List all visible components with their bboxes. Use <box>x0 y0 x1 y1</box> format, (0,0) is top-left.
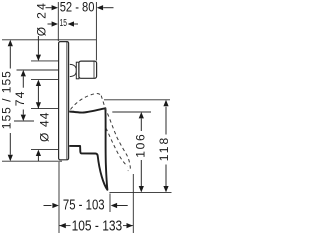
dimension 155/155 <box>2 40 96 161</box>
wire extension line back of plate (bottom) <box>58 162 60 233</box>
handle lever (solid position) <box>69 108 107 190</box>
knob flange <box>76 62 79 79</box>
svg-text:118: 118 <box>157 137 171 161</box>
dimension 74 <box>14 70 58 121</box>
dashed handle right edge <box>101 96 130 171</box>
svg-text:155 / 155: 155 / 155 <box>0 71 14 129</box>
dimension 75-103 <box>44 203 128 208</box>
escutcheon plate (side view) <box>59 42 69 160</box>
svg-text:75 - 103: 75 - 103 <box>63 197 105 213</box>
dashed handle back edge <box>106 128 127 166</box>
svg-text:15: 15 <box>60 18 68 29</box>
svg-text:105 - 133: 105 - 133 <box>72 219 123 235</box>
dimension 52-80 <box>46 5 114 10</box>
knob (set screw / stop, side view) <box>70 61 97 79</box>
wire extension line wall/back of plate (top) <box>57 2 59 41</box>
wire extension line knob front (top) <box>95 2 97 61</box>
knob face line <box>93 62 95 79</box>
bottom tick right dims <box>109 191 171 193</box>
dimension Ø44 <box>31 109 58 162</box>
dimension Ø24 leader/arrows <box>31 36 58 109</box>
dimension 106 (right inner) <box>109 112 171 192</box>
handle base cone <box>69 111 80 146</box>
dimension 15 <box>48 21 79 26</box>
knob body <box>79 61 97 78</box>
dashed handle (alternate position) top arc <box>71 94 102 110</box>
tick knob top <box>31 60 58 62</box>
dimension 105-133 <box>59 223 132 228</box>
svg-text:52 - 80: 52 - 80 <box>60 0 95 15</box>
svg-text:Ø 24: Ø 24 <box>34 3 48 36</box>
svg-text:74: 74 <box>13 91 27 106</box>
knob dome connector <box>70 64 77 76</box>
svg-text:Ø 44: Ø 44 <box>37 112 51 142</box>
tick knob bottom <box>31 79 58 81</box>
wire extension stub for 75-103 right <box>109 194 111 213</box>
wire extension stub for 105-133 right <box>132 174 134 233</box>
svg-text:106: 106 <box>134 134 148 158</box>
dimension 118 (right outer) <box>104 100 170 193</box>
